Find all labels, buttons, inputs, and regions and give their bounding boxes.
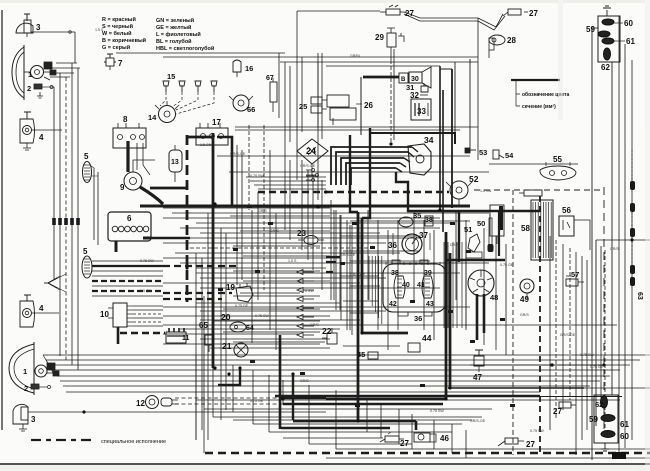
svg-text:14: 14 [148, 113, 157, 122]
cluster ticks [385, 262, 387, 265]
wire right vertical a [591, 28, 593, 460]
svg-text:38: 38 [391, 270, 399, 277]
bus vertical x290 [289, 66, 291, 142]
svg-text:23: 23 [297, 229, 306, 238]
label 65 [199, 321, 208, 330]
dome light 55 [540, 166, 576, 180]
component 65 body [205, 335, 213, 345]
label 24 [306, 146, 316, 156]
connector 2 top [27, 84, 31, 93]
lamp 3 bottom housing [13, 404, 28, 424]
label 48 [490, 293, 498, 302]
wire bends bottom headlamp [43, 355, 53, 373]
wire right vertical d [624, 44, 626, 448]
bus vertical x302 [301, 57, 303, 132]
wiper motor 30 cone [422, 67, 431, 88]
svg-text:0.75 GE: 0.75 GE [250, 399, 264, 403]
label 17 [212, 118, 221, 127]
label 41 [417, 282, 425, 289]
svg-text:28: 28 [507, 36, 516, 45]
label 56 [562, 206, 571, 215]
component 4 top housing [20, 119, 35, 143]
thick wire x459 [458, 212, 460, 262]
label 33 [417, 107, 426, 116]
bus vertical x443 [442, 90, 444, 232]
label 59 top [586, 25, 595, 34]
svg-text:S = черный: S = черный [102, 23, 133, 30]
svg-text:10: 10 [100, 310, 109, 319]
headlamp 1 bottom reflector [9, 344, 34, 393]
label 25 [299, 102, 307, 111]
svg-text:60: 60 [620, 432, 629, 441]
thick dashed run y293 [163, 292, 232, 294]
svg-text:13: 13 [171, 159, 179, 166]
svg-text:GR/S-GE: GR/S-GE [300, 164, 316, 168]
label 26 [364, 101, 373, 110]
wire gauge labels texture [95, 28, 619, 433]
label 27 e [553, 407, 562, 416]
thick elbow relay17 right [217, 137, 232, 206]
svg-text:45: 45 [357, 350, 365, 359]
legend: wire colour codes column 1 [102, 16, 146, 51]
thick switch drop [396, 172, 540, 211]
svg-text:27: 27 [553, 407, 562, 416]
wire bundle vertical 1 [53, 87, 55, 279]
svg-text:55: 55 [553, 155, 562, 164]
label 20 [221, 312, 231, 322]
component 7 connector [106, 58, 114, 66]
rear harness verticals [539, 196, 541, 453]
wire y156 [217, 155, 470, 157]
label 29 [375, 33, 384, 42]
svg-text:1: 1 [28, 70, 32, 79]
component 46 motor [414, 433, 430, 442]
wiper motor 30 [409, 72, 422, 83]
label 43 [426, 301, 434, 308]
svg-text:3: 3 [31, 415, 36, 424]
wire lamp3 bottom [28, 411, 163, 413]
special version text [101, 439, 166, 445]
svg-text:8: 8 [123, 115, 128, 124]
ground component 4 top [23, 143, 31, 150]
svg-text:GR/S-GE: GR/S-GE [560, 333, 576, 337]
svg-text:0.75 GE: 0.75 GE [500, 263, 514, 267]
svg-text:GR/S: GR/S [450, 243, 459, 247]
label 50 [477, 219, 485, 228]
junction dots [316, 205, 319, 208]
label 23 [297, 229, 306, 238]
wire coil top lead [133, 160, 155, 172]
svg-text:21: 21 [222, 341, 232, 351]
component 67 resistor box [270, 82, 277, 102]
thick corner y260 [446, 259, 505, 261]
svg-text:63: 63 [636, 292, 643, 300]
component 4 top bulb [23, 126, 32, 135]
component 29 relay [387, 33, 396, 47]
thick elbow x416 [415, 421, 418, 430]
svg-text:27: 27 [400, 439, 409, 448]
svg-text:0.75 SW: 0.75 SW [580, 353, 594, 357]
label 12 [136, 399, 145, 408]
label 60b [620, 432, 629, 441]
component 22 fuse holder [327, 333, 337, 344]
fuse 27 bottom middle [385, 436, 399, 442]
component 4b mount [24, 295, 31, 301]
wire rear cluster feeds [592, 27, 598, 29]
label 11 [182, 335, 190, 342]
dashed boundary top [474, 189, 604, 191]
svg-text:9: 9 [120, 183, 125, 192]
connector block 10 [113, 303, 127, 327]
wire right vertical e [631, 60, 633, 440]
label 27 b [529, 9, 538, 18]
rear lamp box top right [598, 16, 620, 62]
wire fan bottom headlamp [43, 354, 650, 356]
label 57 [571, 270, 579, 279]
svg-text:0.75 GE: 0.75 GE [590, 365, 604, 369]
thick dashed wire x187 [186, 135, 189, 302]
connector 63 stubs [631, 150, 633, 181]
thick dashed y333 [120, 332, 165, 334]
legend: callout bracket [516, 80, 520, 106]
thick dashed run y299 [163, 298, 222, 300]
label 45 [357, 350, 365, 359]
svg-text:19: 19 [226, 283, 235, 292]
wire y365 interior [470, 364, 604, 366]
thick wire x446 [445, 232, 448, 398]
wire x394 drop [393, 49, 395, 140]
bus vertical x318 [317, 53, 319, 128]
svg-text:17: 17 [212, 118, 221, 127]
svg-text:GR/S: GR/S [520, 313, 529, 317]
cigar lighter 49 [520, 279, 534, 293]
component 32 switch [421, 86, 428, 92]
svg-text:GR/BL: GR/BL [350, 54, 361, 58]
voltage regulator 8 [113, 128, 146, 148]
thick wire x350 [350, 135, 358, 212]
connector marks [247, 205, 252, 208]
bus vertical x470 [469, 59, 471, 152]
component 53 [466, 149, 476, 151]
label 47 [473, 373, 482, 382]
stalk switch 19 [236, 286, 253, 302]
rear lamp box bottom [594, 395, 618, 443]
label 9 [120, 183, 125, 192]
label 63 [636, 292, 643, 300]
connector ladder column [297, 270, 303, 275]
svg-text:20: 20 [221, 312, 231, 322]
battery 11 [166, 332, 186, 343]
component 23 [304, 236, 318, 245]
bus vertical x279 [278, 53, 280, 118]
label 49 [520, 295, 529, 304]
spark plug 15a [163, 81, 169, 86]
wire y130 from relay17 [235, 129, 460, 131]
svg-text:34: 34 [424, 135, 434, 145]
svg-text:33: 33 [417, 107, 426, 116]
label 66 [247, 105, 255, 114]
wire fan from block 10 [133, 305, 163, 307]
label 64 [246, 325, 254, 332]
label 38 [391, 270, 399, 277]
wire bundle vertical 5 [77, 68, 79, 370]
legend: wire colour codes column 2 [156, 17, 214, 52]
svg-text:1.5 S: 1.5 S [288, 259, 297, 263]
svg-text:36: 36 [388, 241, 397, 250]
component 38b [425, 216, 433, 226]
rear bulb 59b [601, 415, 615, 422]
label 44 [422, 333, 432, 343]
thick wire x499 [498, 212, 500, 256]
wire bundle left of cluster [368, 256, 370, 300]
svg-text:66: 66 [247, 105, 255, 114]
thick wire top link [187, 136, 213, 139]
bus wire y57 [163, 56, 478, 58]
label 27 d [526, 440, 535, 449]
wire component4b [31, 312, 59, 314]
svg-text:5: 5 [83, 247, 88, 256]
blower resistor [524, 190, 542, 196]
component 24 lead [311, 164, 313, 176]
label 52 [469, 174, 479, 184]
svg-text:0.75 SW: 0.75 SW [430, 409, 444, 413]
label 13 [171, 159, 179, 166]
wire bundle connectors [52, 218, 56, 225]
thick elbow x280 [280, 335, 326, 429]
lamp 3 top-left bulb [24, 20, 31, 33]
thick dashed run y266 [163, 265, 240, 267]
thick drop x293 [292, 374, 294, 420]
label 62 top [601, 63, 610, 72]
page bottom border [0, 463, 650, 465]
rear lamp top ground [603, 6, 611, 16]
svg-text:48: 48 [490, 293, 498, 302]
svg-text:51: 51 [464, 225, 472, 234]
marker 73 black tag [612, 452, 626, 459]
svg-text:7: 7 [118, 59, 123, 68]
component 56 frame [574, 220, 590, 250]
component 20 sensor [230, 322, 246, 332]
thick dashed main bus [326, 191, 449, 194]
component 21 horn button [234, 343, 248, 357]
wire headlamp exit 1 [56, 62, 77, 64]
wire headlamp exit 3 [53, 72, 74, 74]
thick drop from conn10 [117, 327, 120, 344]
bus vertical x455 [454, 62, 456, 133]
fuse box 6 [108, 212, 151, 241]
label 42 [389, 301, 397, 308]
component 16 sensor [233, 60, 241, 72]
label 6 [127, 214, 132, 223]
bus wire y66 [326, 65, 440, 67]
thick feed y77 [363, 76, 399, 79]
label 27 a [405, 9, 414, 18]
label 3 bottom [31, 415, 36, 424]
headlamp 1 top connector pins [44, 62, 52, 69]
svg-text:27: 27 [529, 9, 538, 18]
svg-text:GN = зеленый: GN = зеленый [156, 17, 194, 24]
svg-text:15: 15 [167, 72, 175, 81]
svg-text:4: 4 [39, 304, 44, 313]
svg-text:16: 16 [245, 64, 253, 73]
component 13 ballast [169, 150, 182, 172]
svg-text:12: 12 [136, 399, 145, 408]
spark plug 15c [195, 81, 201, 86]
component 51 stalk [468, 234, 480, 252]
svg-text:1.5 GN: 1.5 GN [200, 143, 212, 147]
thick wire x213 [212, 133, 215, 368]
label 55 [553, 155, 562, 164]
thick wire 48 drop b [483, 294, 486, 333]
component 4b housing [20, 301, 35, 327]
lamp 3 top-left housing [16, 23, 33, 33]
dashed boundary vertical right [603, 187, 605, 432]
wire y127 from relay17 [235, 126, 478, 128]
thick wire 48 drop a [476, 294, 479, 340]
component 56 switch [559, 216, 574, 236]
wire 8 thin leads [136, 143, 138, 170]
component 44 box [408, 343, 420, 352]
bus vertical x285 [284, 62, 286, 150]
wire from 12 dashed a [175, 397, 310, 399]
label 38b [425, 217, 433, 224]
wire y240 right [596, 239, 650, 241]
bus vertical x440 [439, 66, 441, 210]
svg-text:46: 46 [440, 434, 449, 443]
svg-text:GR/S-GE: GR/S-GE [470, 419, 486, 423]
page left border [1, 10, 3, 430]
speedometer 37 [402, 234, 422, 254]
wire coil to harness thick [140, 187, 163, 204]
component 26 regulator [327, 95, 349, 107]
ignition switch 34 [408, 144, 431, 175]
rear bulb 62b [601, 396, 608, 408]
label 1 top [28, 70, 32, 79]
label 36 left [388, 241, 397, 250]
headlamp bottom connector [47, 363, 55, 370]
svg-text:60: 60 [624, 19, 633, 28]
svg-text:44: 44 [422, 333, 432, 343]
bus vertical x322 [321, 53, 323, 139]
svg-text:1.5 GN: 1.5 GN [140, 289, 152, 293]
fuse box 6 right thick [143, 237, 151, 240]
wire headlamp exit 4 [50, 76, 70, 78]
lamp 3 bottom bulb [21, 407, 28, 420]
svg-text:2: 2 [27, 84, 31, 93]
component 29 arm [398, 33, 404, 42]
svg-text:61: 61 [620, 420, 629, 429]
svg-text:42: 42 [389, 301, 397, 308]
label 35 [413, 211, 421, 220]
legend: sample wire line [511, 79, 560, 81]
label 4b [39, 304, 44, 313]
component 24 diode diamond [297, 139, 328, 164]
washer pump 33 [411, 99, 431, 120]
component 47 fuel sender [474, 356, 484, 366]
svg-text:22: 22 [322, 326, 332, 336]
thick harness staircase to switch 34 [331, 147, 412, 185]
svg-text:BL = голубой: BL = голубой [156, 38, 192, 45]
svg-text:GR/S: GR/S [300, 379, 309, 383]
label 31 [406, 83, 414, 92]
svg-text:2: 2 [24, 384, 28, 393]
bottom harness verticals [195, 355, 197, 440]
svg-text:49: 49 [520, 295, 529, 304]
label 1 bottom [23, 367, 27, 376]
flasher relay 17 [196, 128, 228, 145]
wire grommet gather [48, 278, 57, 288]
wire dome light [489, 163, 578, 165]
label 62b [595, 400, 603, 409]
ground lamp3 bottom [19, 424, 27, 431]
heater blower 58 [531, 200, 553, 260]
component 4b bulb [23, 309, 32, 318]
bus wire y62 [280, 61, 478, 63]
terminals under 24 [312, 169, 315, 172]
switch 34 pin diagonals [396, 147, 418, 172]
headlamp 1 top bulb [31, 66, 44, 79]
label 22 [322, 326, 332, 336]
grommet 5 upper [83, 162, 92, 183]
svg-text:GR/S-GE: GR/S-GE [340, 253, 356, 257]
svg-text:53: 53 [479, 148, 487, 157]
svg-text:сечение (мм²): сечение (мм²) [522, 104, 556, 110]
wire bundle vertical 3 [65, 77, 67, 360]
wire pair from grommet upper [93, 168, 95, 240]
svg-text:3: 3 [36, 23, 41, 32]
label 34 [424, 135, 434, 145]
svg-text:36: 36 [414, 314, 422, 323]
svg-text:специальное исполнение: специальное исполнение [101, 439, 166, 445]
dashed boundary vertical left [512, 190, 514, 455]
svg-text:0.75 GE: 0.75 GE [235, 304, 249, 308]
label 61 top [626, 37, 635, 46]
fuse box 6 fuses [112, 226, 118, 232]
svg-text:1.5 S: 1.5 S [95, 28, 104, 32]
svg-text:GR/S-GE: GR/S-GE [350, 273, 366, 277]
fuse 27 top middle [386, 9, 400, 15]
thick wire y188 left [150, 187, 187, 190]
wire fan from grommet [92, 260, 163, 262]
svg-text:GR/S-GE: GR/S-GE [230, 152, 246, 156]
svg-text:54: 54 [505, 151, 514, 160]
svg-text:61: 61 [626, 37, 635, 46]
svg-text:62: 62 [595, 400, 603, 409]
svg-text:29: 29 [375, 33, 384, 42]
headlamp 1 bottom bulb [35, 365, 47, 377]
wire 29 drop [390, 60, 392, 144]
label 40 [402, 282, 410, 289]
rear lamp bulb 59 [598, 31, 610, 37]
wire bundle vertical 4 [71, 63, 73, 365]
thick horiz y332 [362, 332, 408, 335]
thick wire x450 [449, 253, 452, 388]
cabin harness horizontal mesh [140, 205, 470, 208]
svg-text:R = красный: R = красный [102, 16, 136, 23]
thick wire x370 corner [362, 128, 370, 218]
connector 2 bottom [24, 384, 28, 393]
label 58 [521, 224, 530, 233]
grommet 5 [82, 256, 92, 278]
wire 8 to coil thick [126, 141, 129, 172]
svg-text:59: 59 [589, 415, 598, 424]
svg-text:GR/S: GR/S [310, 323, 319, 327]
label 5 upper [84, 152, 89, 161]
svg-text:67: 67 [266, 75, 274, 82]
svg-text:0.75 SW: 0.75 SW [530, 429, 544, 433]
svg-text:40: 40 [402, 282, 410, 289]
svg-text:52: 52 [469, 174, 479, 184]
